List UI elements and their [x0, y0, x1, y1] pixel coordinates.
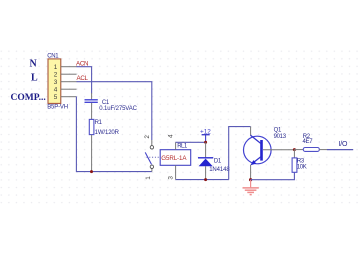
transistor Q1 emitter lead — [250, 165, 252, 180]
pin 2 of CN1 — [54, 72, 77, 79]
svg-text:1N4148: 1N4148 — [209, 167, 230, 173]
svg-text:2: 2 — [54, 72, 58, 79]
text label COMP... — [11, 93, 46, 103]
resistor R2 horizontal body — [303, 148, 319, 152]
svg-text:+12: +12 — [200, 128, 211, 135]
resistor R2 value 4E7 — [303, 139, 314, 145]
relay switch blade — [145, 152, 151, 164]
resistor R3 designator — [297, 158, 305, 164]
wire bottom node from coil pin3 past D1 anode — [176, 179, 229, 181]
relay switch pin number 1 — [145, 176, 152, 180]
wire from coil pin4 to +12 node — [176, 141, 206, 143]
text label N — [30, 59, 38, 70]
svg-text:I/O: I/O — [339, 141, 348, 148]
wire from emitter node to R3 bottom — [251, 173, 295, 180]
transistor Q1 value 9013 — [274, 134, 287, 140]
relay switch top contact circle (pin 2) — [150, 146, 153, 149]
pin 4 of CN1 — [54, 87, 77, 94]
capacitor C1 value 0.1uF/275VAC — [99, 106, 137, 112]
diode D1 designator — [214, 159, 222, 165]
resistor R3 — [292, 150, 297, 173]
svg-text:CN1: CN1 — [47, 53, 59, 59]
svg-text:RL1: RL1 — [177, 143, 188, 149]
capacitor C1 — [85, 93, 98, 119]
svg-text:G5RL-1A: G5RL-1A — [161, 155, 187, 162]
junction at emitter / ground — [249, 178, 252, 181]
resistor R1 value 1W/120R — [95, 130, 120, 136]
resistor R3 value 10K — [297, 164, 307, 170]
wire net ACL from pin3 to switch — [77, 82, 152, 146]
svg-text:COMP...: COMP... — [11, 93, 46, 103]
svg-text:R1: R1 — [95, 120, 103, 126]
svg-text:0.1uF/275VAC: 0.1uF/275VAC — [99, 106, 137, 112]
svg-text:1: 1 — [145, 176, 152, 180]
Q1 base lead and wire to junction — [263, 149, 294, 151]
svg-text:C1: C1 — [102, 100, 110, 106]
transistor Q1 emitter stroke with arrow — [250, 157, 261, 166]
svg-text:3: 3 — [168, 176, 175, 180]
net label ACL — [77, 75, 89, 82]
svg-text:1: 1 — [54, 64, 58, 71]
junction at +12 node — [204, 141, 207, 144]
svg-text:D1: D1 — [214, 159, 222, 165]
transistor Q1 collector stroke — [251, 135, 262, 143]
transistor Q1 base bar — [260, 140, 263, 161]
pin 1 of CN1 — [54, 64, 77, 71]
resistor R2 designator — [303, 134, 311, 140]
resistor R1 — [89, 119, 94, 171]
Q1 collector lead — [250, 127, 252, 136]
svg-text:Q1: Q1 — [274, 128, 282, 134]
svg-text:N: N — [30, 59, 38, 70]
svg-text:3: 3 — [54, 79, 58, 86]
pin 3 of CN1 — [54, 79, 77, 86]
transistor Q1 body circle — [243, 136, 271, 164]
connector CN1 value label B5P-VH — [47, 104, 68, 110]
relay RL1 designator — [177, 143, 188, 149]
resistor R1 designator — [95, 120, 103, 126]
relay coil RL1 body — [160, 150, 191, 166]
relay RL1 value G5RL-1A — [161, 155, 187, 162]
junction at D1 anode — [204, 178, 207, 181]
ground symbol — [243, 180, 259, 195]
power symbol +12 — [200, 128, 211, 142]
svg-text:R3: R3 — [297, 158, 305, 164]
junction at base / R2 / R3 — [293, 148, 296, 151]
svg-text:10K: 10K — [297, 164, 307, 170]
text label L — [31, 73, 38, 84]
wire net ACN from pin1 to C1 column — [77, 67, 92, 94]
connector CN1 body — [48, 59, 61, 104]
relay coil pin 4 — [167, 134, 175, 150]
svg-text:4: 4 — [54, 87, 58, 94]
pin 5 of CN1 — [54, 94, 77, 101]
svg-text:1W/120R: 1W/120R — [95, 130, 120, 136]
svg-text:4: 4 — [167, 134, 174, 138]
relay switch bottom contact circle (pin 1) — [150, 165, 153, 168]
wire net from pin5 along bottom to switch contact — [76, 97, 151, 172]
svg-text:B5P-VH: B5P-VH — [47, 104, 68, 110]
capacitor C1 designator — [102, 100, 110, 106]
svg-text:ACL: ACL — [77, 75, 89, 82]
junction at R1 bottom and pin5 wire — [90, 170, 93, 173]
svg-text:2: 2 — [144, 135, 151, 139]
wire from junction to R2 — [294, 149, 303, 151]
relay switch pin number 2 — [144, 135, 151, 139]
connector CN1 designator label — [47, 53, 59, 59]
net label ACN — [76, 60, 88, 67]
svg-text:L: L — [31, 73, 38, 84]
relay switch actuator dashed link — [147, 156, 161, 158]
wire route up and over to Q1 collector — [229, 127, 251, 180]
wire from R2 to I/O — [319, 149, 353, 151]
svg-text:4E7: 4E7 — [303, 139, 314, 145]
diode D1 value 1N4148 — [209, 167, 230, 173]
svg-text:5: 5 — [54, 94, 58, 101]
svg-text:9013: 9013 — [274, 134, 287, 140]
net label I/O — [339, 141, 348, 148]
diode D1 — [198, 142, 213, 179]
transistor Q1 designator — [274, 128, 282, 134]
relay coil pin 3 — [168, 165, 176, 179]
